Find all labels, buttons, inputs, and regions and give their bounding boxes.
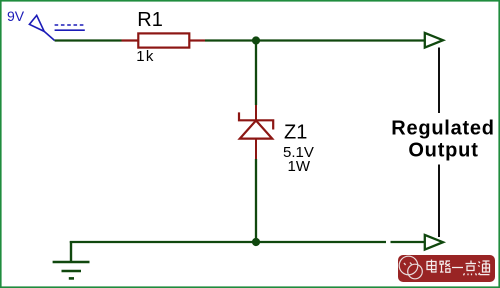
- svg-text:9V: 9V: [7, 8, 25, 24]
- output link line bottom: [438, 165, 440, 238]
- svg-text:1k: 1k: [136, 48, 154, 65]
- resistor R1 body: [138, 33, 189, 47]
- watermark text 电路一点通: [427, 260, 490, 276]
- zener Z1 cathode bar with bent ends: [239, 112, 273, 129]
- wire: zener to bottom node: [255, 159, 257, 242]
- output arrow top: [425, 33, 443, 48]
- wire: ground riser: [70, 241, 72, 262]
- svg-text:1W: 1W: [288, 158, 311, 175]
- watermark badge: [398, 255, 495, 282]
- wire: source to R1: [55, 39, 122, 41]
- wire: R1 to top-right arrow: [205, 39, 425, 41]
- battery source terminal: [29, 15, 84, 40]
- svg-text:Regulated: Regulated: [391, 118, 494, 140]
- wire: node down to zener: [255, 41, 257, 106]
- svg-text:R1: R1: [137, 9, 163, 31]
- wire: bottom rail left: [70, 241, 386, 243]
- svg-text:Z1: Z1: [284, 121, 307, 143]
- output arrow bottom: [425, 235, 443, 250]
- wire: R1 left pin: [122, 39, 139, 41]
- zener Z1 triangle: [240, 121, 272, 139]
- ground: [53, 262, 90, 278]
- wire: bottom rail right: [391, 241, 426, 243]
- node: bottom junction: [252, 238, 260, 246]
- output link line top: [438, 48, 440, 114]
- watermark logo circles: [399, 256, 422, 279]
- node: top junction: [252, 36, 260, 44]
- svg-text:Output: Output: [408, 140, 478, 162]
- wire: R1 right pin: [190, 39, 206, 41]
- zener Z1 cathode pin: [255, 105, 257, 120]
- zener Z1 anode pin: [255, 138, 257, 159]
